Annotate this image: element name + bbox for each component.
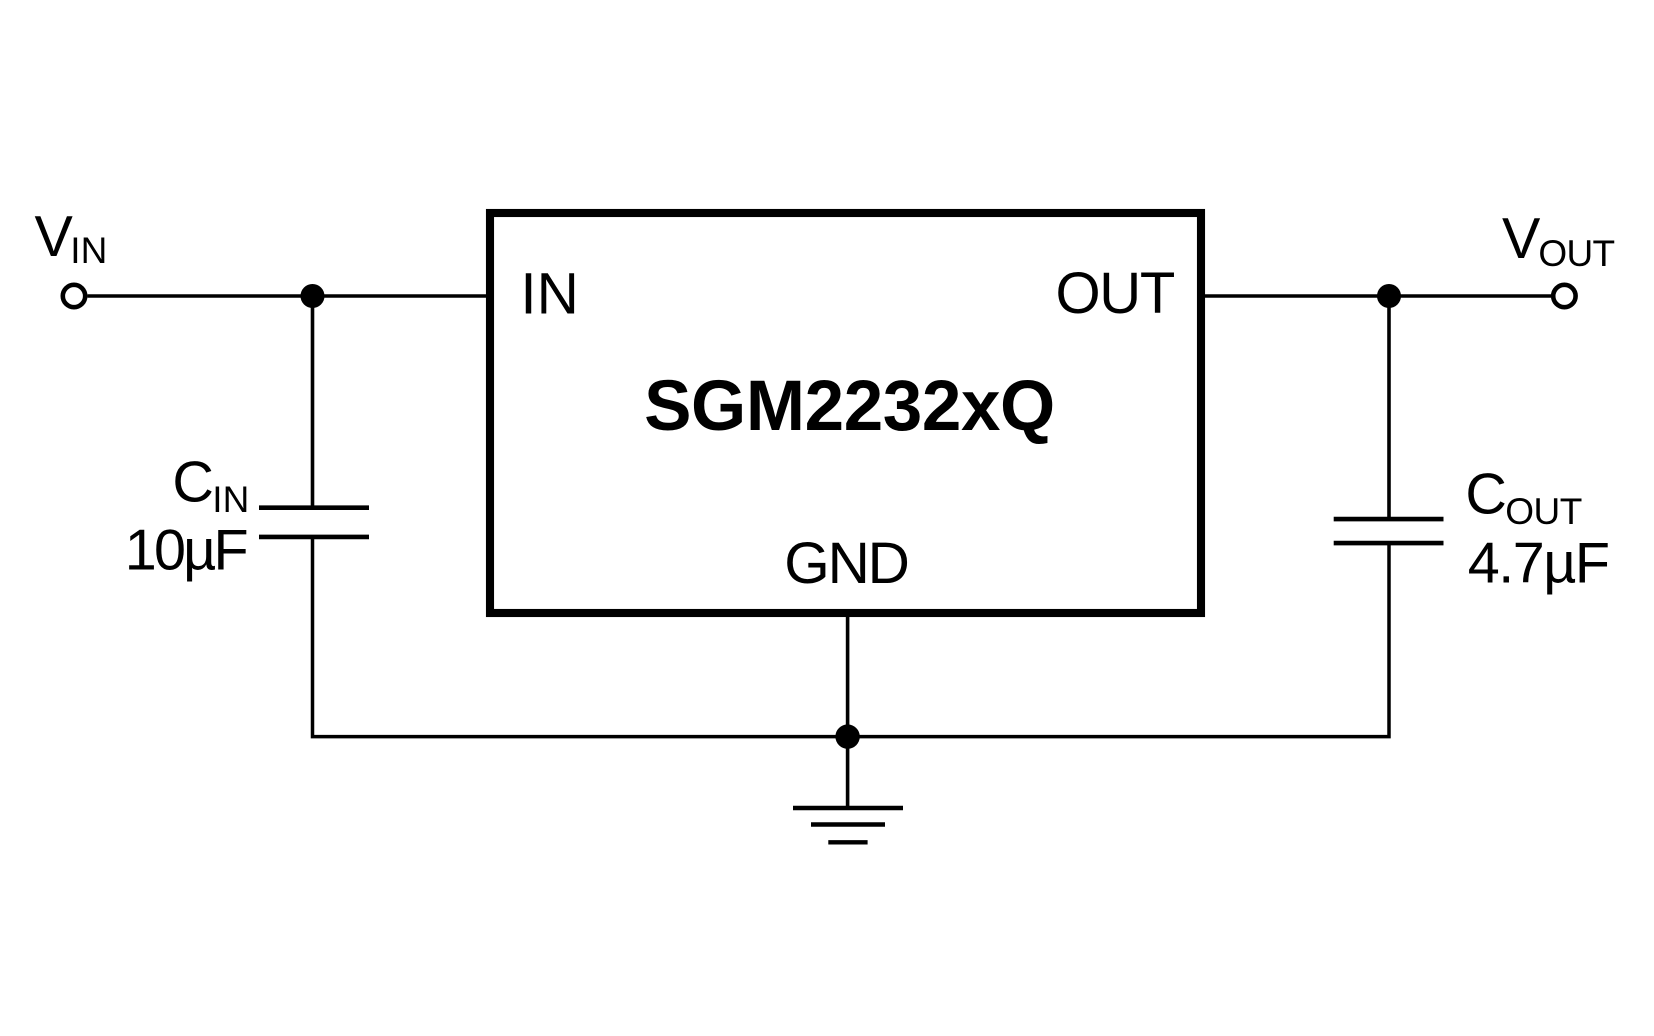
svg-text:C: C <box>1465 463 1507 527</box>
wire junction to ground symbol <box>846 737 850 808</box>
node VIN label <box>35 205 108 271</box>
svg-text:IN: IN <box>520 262 579 327</box>
wire junction to CIN top plate <box>311 296 315 508</box>
node VOUT terminal <box>1553 285 1575 307</box>
junction GND rail <box>835 724 859 748</box>
wire OUT pin to VOUT terminal <box>1204 294 1551 298</box>
svg-text:V: V <box>35 205 74 269</box>
svg-text:4.7µF: 4.7µF <box>1468 532 1609 596</box>
svg-text:OUT: OUT <box>1505 491 1582 532</box>
svg-text:IN: IN <box>70 230 107 271</box>
svg-text:SGM2232xQ: SGM2232xQ <box>644 367 1055 446</box>
svg-text:V: V <box>1502 207 1541 271</box>
capacitor CIN <box>259 508 369 537</box>
wire CIN bottom, ground rail, COUT bottom <box>313 537 1390 737</box>
label COUT <box>1465 463 1581 533</box>
wire junction to COUT top plate <box>1387 296 1391 520</box>
junction VOUT node / COUT <box>1377 284 1401 308</box>
node VIN terminal <box>63 285 85 307</box>
wire VIN terminal to IN pin <box>88 294 488 298</box>
wire GND pin to rail <box>846 615 850 737</box>
op IC U1 SGM2232xQ <box>490 213 1201 613</box>
svg-text:GND: GND <box>784 531 907 596</box>
ground <box>793 808 903 842</box>
label CIN <box>172 451 249 521</box>
junction VIN node / CIN <box>301 284 325 308</box>
svg-text:10µF: 10µF <box>125 519 247 583</box>
capacitor COUT <box>1334 519 1444 543</box>
svg-text:OUT: OUT <box>1055 261 1174 326</box>
svg-text:C: C <box>172 451 214 515</box>
svg-text:IN: IN <box>212 479 249 520</box>
svg-text:OUT: OUT <box>1538 233 1614 274</box>
node VOUT label <box>1502 207 1615 274</box>
